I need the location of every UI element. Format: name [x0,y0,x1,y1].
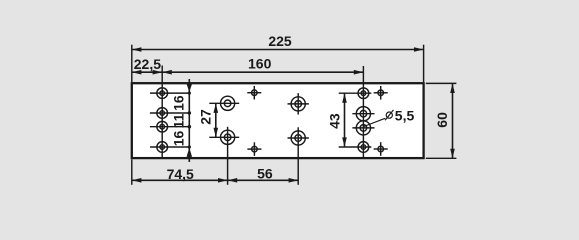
hole M2 (large, bottom) [288,127,309,185]
small hole bottom middle [247,142,261,156]
chain dimension line 16/11/16 [187,79,193,162]
arrow 225 left [132,47,142,52]
svg-text:22,5: 22,5 [134,56,161,72]
dimension line 225 [132,49,424,51]
diameter symbol [385,110,393,120]
extension line left (x=131.8 top) [131,45,133,82]
arrow 60 top [450,83,455,93]
svg-text:5,5: 5,5 [395,108,415,124]
svg-text:27: 27 [197,109,213,125]
hole R2 (large) [352,107,374,121]
dimension line 60 [452,83,454,158]
leader line diameter 5,5 [364,118,385,126]
svg-text:43: 43 [327,113,343,129]
svg-text:60: 60 [434,112,450,128]
arrow 225 right [414,47,424,52]
small hole bottom right [374,142,388,156]
arrow 74,5 right [218,178,228,183]
svg-text:16: 16 [171,131,187,147]
hole L4 [150,142,189,153]
hole R3 (large) [352,121,374,135]
svg-text:16: 16 [171,95,187,111]
arrow 160 left [162,70,172,75]
arrow 74,5 left [132,178,142,183]
arrow 56 right [289,178,299,183]
dimension line 43 [342,93,347,147]
hole L3 [150,121,189,132]
svg-text:160: 160 [248,56,272,72]
dimension line 27 [214,103,219,137]
dimension line 22,5 / 160 [132,71,364,73]
hole M1 (large, top) [288,93,309,114]
arrow 22,5 right [153,70,163,75]
svg-text:11: 11 [171,113,187,128]
arrow 160 right [354,70,364,75]
small hole top middle [247,86,261,100]
arrow 22,5 left [132,70,142,75]
hole R1 [339,88,372,99]
extension line bottom left (x=131.8) [131,159,133,184]
arrow 56 left [228,178,238,183]
dimension line 74,5 / 56 [132,179,298,181]
extension line 60 bottom [426,157,457,159]
svg-text:225: 225 [268,33,292,49]
hole L2 [150,108,189,119]
svg-text:56: 56 [257,166,273,182]
mounting plate outline [132,83,424,158]
extension line right hole column (x=363.4) [362,66,364,158]
extension line right (x=423.6 top) [423,45,425,82]
extension line left hole column (x=162.2) [161,66,163,159]
small hole top right [374,86,388,100]
arrow 60 bottom [450,149,455,159]
hole L1 [150,88,189,99]
extension line 60 top [426,82,457,84]
hole C2a (large, top) [209,96,239,110]
hole C2b (large, bottom) [209,127,239,185]
svg-text:74,5: 74,5 [167,166,194,182]
hole R4 [339,142,372,153]
